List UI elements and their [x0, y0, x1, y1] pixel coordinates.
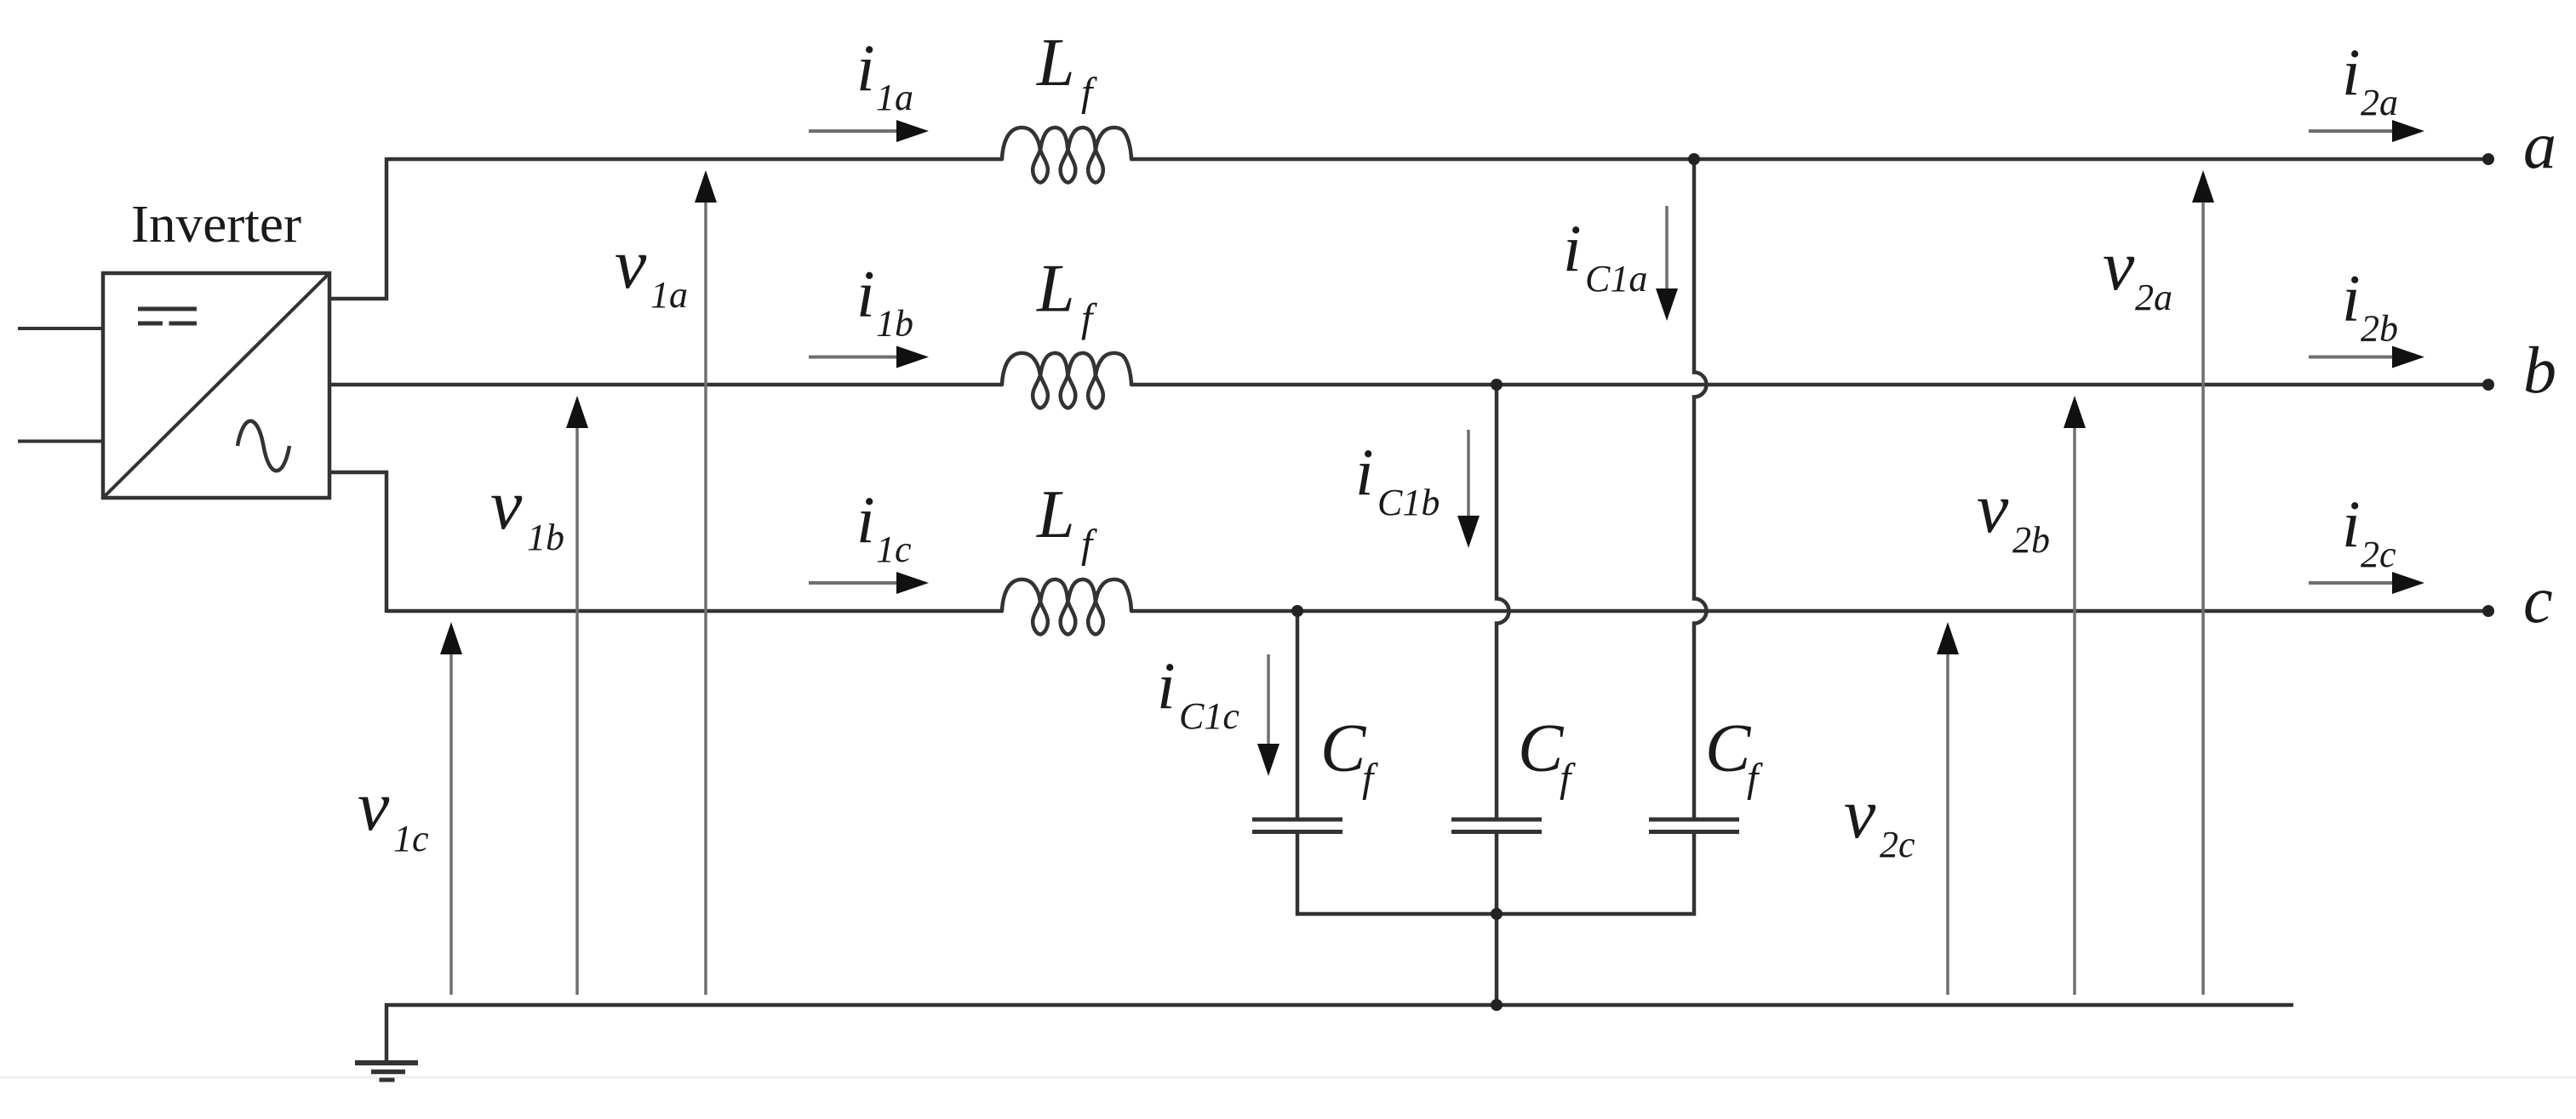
voltage arrow v2c: [1937, 622, 1959, 995]
svg-text:C1a: C1a: [1585, 258, 1647, 300]
inverter diagonal: [103, 273, 329, 498]
label i2c: [2342, 487, 2396, 575]
svg-text:v: v: [490, 465, 523, 545]
svg-text:i: i: [2342, 261, 2361, 335]
svg-text:2c: 2c: [1880, 824, 1915, 865]
svg-text:C: C: [1518, 711, 1565, 786]
node: phase b / C2 junction: [1491, 379, 1503, 391]
inverter DC symbol dashed bar: [138, 322, 163, 326]
svg-text:1c: 1c: [393, 818, 429, 859]
svg-text:i: i: [1355, 435, 1374, 509]
wire: inverter top output stub: [329, 297, 388, 301]
label i1b: [856, 257, 913, 345]
svg-text:C1b: C1b: [1377, 482, 1440, 523]
svg-text:v: v: [615, 225, 647, 304]
svg-text:i: i: [2342, 35, 2361, 109]
capacitor Cf C1 (phase c) plates: [1252, 818, 1342, 822]
wire: DC input top: [18, 327, 103, 330]
current arrow i2b: [2309, 346, 2424, 368]
wire: vertical jog up to phase a: [385, 157, 389, 300]
svg-text:Inverter: Inverter: [131, 196, 301, 254]
label iC1b: [1355, 435, 1440, 523]
label Cf 1: [1320, 711, 1378, 801]
wire: DC input bottom: [18, 440, 103, 443]
svg-text:i: i: [1563, 211, 1582, 285]
svg-text:i: i: [2342, 487, 2361, 561]
inverter U1 box: [103, 273, 329, 498]
svg-text:i: i: [856, 257, 875, 331]
wire: capacitor common bus: [1296, 912, 1696, 916]
voltage arrow v1b: [566, 396, 588, 995]
svg-text:1b: 1b: [876, 303, 913, 345]
wire: phase a, inverter jog to inductor: [386, 157, 1002, 162]
current arrow iC1c: [1257, 654, 1279, 776]
wire: capacitor C3 (phase a) lower stem: [1692, 834, 1697, 916]
inverter DC symbol solid bar: [138, 307, 197, 311]
voltage arrow v2b: [2064, 396, 2086, 995]
wire: phase c, inductor to terminal c: [1131, 609, 2488, 614]
inverter AC sine symbol: [238, 421, 289, 471]
svg-text:v: v: [1977, 469, 2009, 548]
current arrow i1b: [809, 346, 929, 368]
svg-text:2a: 2a: [2135, 277, 2172, 318]
svg-text:2b: 2b: [2361, 308, 2398, 350]
label Lf phase b: [1036, 252, 1097, 341]
wire: bottom ground rail: [385, 1003, 2293, 1008]
label i2a: [2342, 35, 2398, 123]
current arrow i1a: [809, 120, 929, 142]
wire: Cf branch from phase a node down (with hops over b and c): [1694, 159, 1707, 818]
wire: ground stem: [385, 1003, 389, 1062]
svg-text:v: v: [358, 767, 390, 846]
svg-text:b: b: [2523, 333, 2556, 407]
svg-text:C: C: [1705, 711, 1752, 786]
label v1c: [358, 767, 429, 859]
capacitor Cf C2 (phase b) plates: [1451, 818, 1542, 822]
svg-text:v: v: [2103, 226, 2135, 305]
label Cf 3: [1705, 711, 1763, 801]
current arrow iC1a: [1656, 206, 1678, 321]
terminal c: [2482, 605, 2494, 617]
node: capacitor bus center: [1491, 908, 1503, 920]
wire: Cf branch from phase c node down: [1296, 611, 1300, 818]
voltage arrow v1c: [440, 622, 462, 995]
current arrow i2a: [2309, 120, 2424, 142]
inductor Lf phase a coil: [1002, 128, 1131, 183]
voltage arrow v2a: [2192, 170, 2214, 995]
wire: phase c, inverter jog to inductor: [386, 609, 1002, 614]
wire: Cf branch from phase b node down (with hop over c): [1497, 385, 1509, 818]
ground symbol: [355, 1060, 418, 1065]
label iC1c: [1157, 648, 1239, 737]
svg-text:2c: 2c: [2361, 534, 2396, 575]
svg-text:a: a: [2523, 108, 2556, 182]
wire: phase a, inductor to terminal a: [1131, 157, 2488, 162]
inductor Lf phase b coil: [1002, 353, 1131, 408]
node: phase a / C3 junction: [1688, 153, 1700, 165]
label i2b: [2342, 261, 2398, 350]
svg-text:1a: 1a: [650, 274, 688, 316]
wire: neutral stem from bus to ground rail: [1495, 914, 1499, 1005]
svg-text:1a: 1a: [876, 77, 913, 118]
wire: inverter bottom output stub: [329, 471, 388, 475]
svg-text:L: L: [1036, 252, 1075, 327]
svg-text:i: i: [856, 31, 875, 105]
current arrow i1c: [809, 572, 929, 594]
label Cf 2: [1518, 711, 1576, 801]
svg-text:C: C: [1320, 711, 1367, 786]
current arrow iC1b: [1457, 430, 1480, 548]
terminal b: [2482, 379, 2494, 391]
svg-text:C1c: C1c: [1179, 695, 1239, 737]
svg-text:v: v: [1844, 774, 1876, 854]
label v2a: [2103, 226, 2172, 318]
faint page rule: [0, 1076, 2576, 1079]
node: neutral / ground rail: [1491, 999, 1503, 1011]
svg-text:1c: 1c: [876, 528, 912, 570]
node: phase c / C1 junction: [1291, 605, 1303, 617]
wire: capacitor C2 (phase b) lower stem: [1495, 834, 1499, 916]
svg-text:L: L: [1036, 477, 1075, 552]
label i1c: [856, 482, 912, 570]
wire: capacitor C1 (phase c) lower stem: [1296, 834, 1300, 916]
label Lf phase c: [1036, 477, 1097, 567]
svg-text:2b: 2b: [2012, 519, 2050, 561]
label v1a: [615, 225, 688, 316]
capacitor Cf C3 (phase a) plates: [1649, 818, 1739, 822]
current arrow i2c: [2309, 572, 2424, 594]
label v2c: [1844, 774, 1915, 865]
wire: phase b, inverter to inductor: [329, 383, 1002, 387]
svg-text:L: L: [1036, 26, 1075, 100]
label v2b: [1977, 469, 2050, 561]
terminal a: [2482, 153, 2494, 165]
label i1a: [856, 31, 913, 118]
label iC1a: [1563, 211, 1647, 300]
svg-text:i: i: [856, 482, 875, 557]
svg-text:c: c: [2523, 562, 2553, 637]
wire: vertical jog down to phase c: [385, 471, 389, 613]
svg-text:i: i: [1157, 648, 1176, 722]
svg-text:1b: 1b: [527, 517, 564, 558]
inductor Lf phase c coil: [1002, 579, 1131, 635]
voltage arrow v1a: [695, 170, 717, 995]
label v1b: [490, 465, 564, 558]
label Lf phase a: [1036, 26, 1097, 115]
svg-text:2a: 2a: [2361, 82, 2398, 123]
wire: phase b, inductor to terminal b: [1131, 383, 2488, 387]
